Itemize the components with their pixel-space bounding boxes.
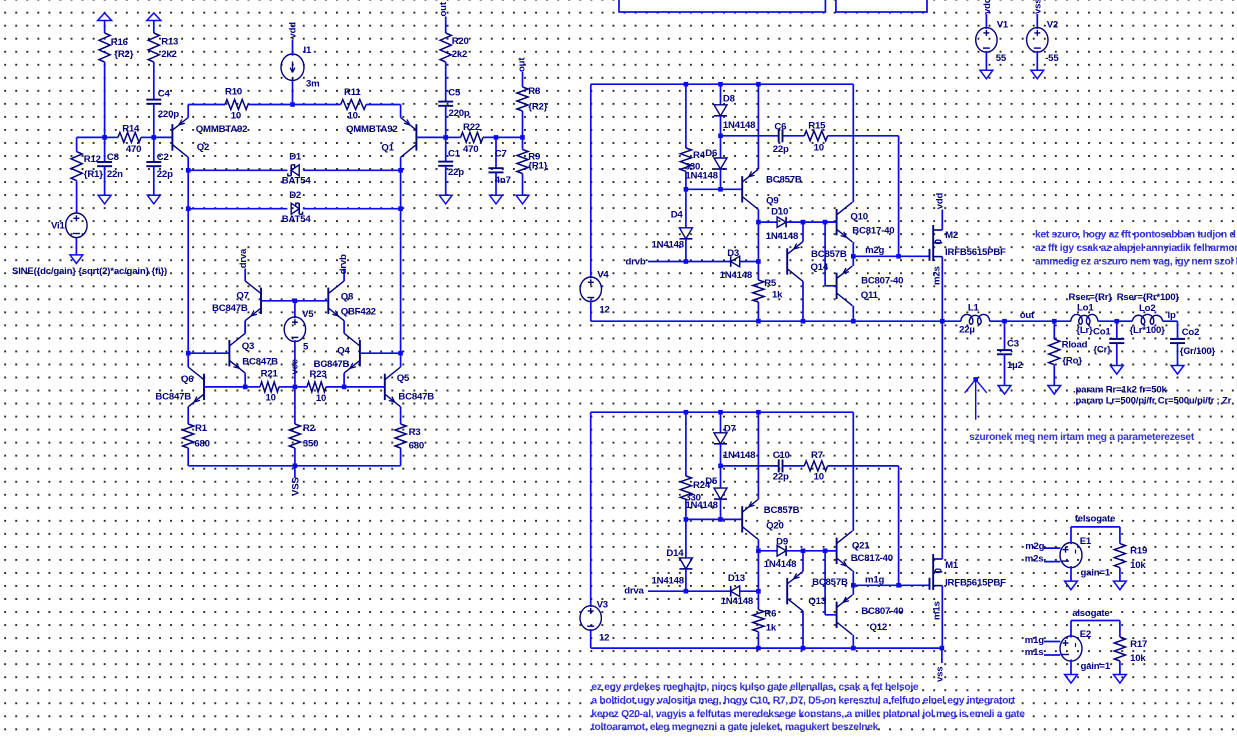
svg-text:R12: R12 bbox=[84, 154, 101, 165]
svg-text:D9: D9 bbox=[776, 536, 788, 547]
svg-text:felsogate: felsogate bbox=[1075, 514, 1115, 525]
svg-text:D13: D13 bbox=[728, 573, 745, 584]
svg-text:BC857B: BC857B bbox=[764, 505, 800, 516]
svg-text:ket szuro, hogy az fft pontosa: ket szuro, hogy az fft pontosabban tudjo… bbox=[1035, 229, 1235, 240]
svg-text:1k: 1k bbox=[772, 289, 783, 300]
svg-text:Q6: Q6 bbox=[181, 374, 193, 385]
svg-text:Q13: Q13 bbox=[808, 596, 826, 607]
svg-text:{R1}: {R1} bbox=[84, 169, 103, 180]
svg-text:vdd: vdd bbox=[287, 22, 298, 39]
svg-text:.param Lr=500/pi/fr Cr=500u/pi: .param Lr=500/pi/fr Cr=500u/pi/fr ; Zr bbox=[1073, 396, 1232, 407]
svg-text:BC857B: BC857B bbox=[766, 175, 802, 186]
svg-text:BC807-40: BC807-40 bbox=[861, 276, 903, 287]
svg-text:D3: D3 bbox=[727, 248, 739, 259]
svg-text:R3: R3 bbox=[409, 427, 421, 438]
svg-text:R14: R14 bbox=[122, 123, 140, 134]
svg-text:10k: 10k bbox=[1130, 560, 1146, 571]
svg-text:1N4148: 1N4148 bbox=[766, 231, 799, 242]
svg-text:L1: L1 bbox=[968, 303, 980, 314]
svg-text:{R2}: {R2} bbox=[114, 49, 133, 60]
svg-text:SINE({dc/gain} {sqrt(2)*ac/gai: SINE({dc/gain} {sqrt(2)*ac/gain} {fi}) bbox=[12, 266, 167, 277]
svg-text:E2: E2 bbox=[1080, 629, 1091, 640]
svg-text:10: 10 bbox=[814, 143, 824, 154]
svg-text:C2: C2 bbox=[157, 152, 169, 163]
svg-text:ez egy erdekes meghajto, nincs: ez egy erdekes meghajto, nincs kulso gat… bbox=[591, 682, 919, 693]
svg-text:C8: C8 bbox=[107, 152, 120, 163]
svg-text:az fft igy csak az alapjel ann: az fft igy csak az alapjel annyiadik fel… bbox=[1035, 243, 1237, 254]
svg-text:22p: 22p bbox=[773, 472, 789, 483]
svg-text:R22: R22 bbox=[463, 122, 480, 133]
svg-text:Q12: Q12 bbox=[870, 622, 888, 633]
svg-text:m2g: m2g bbox=[865, 245, 884, 256]
svg-text:470: 470 bbox=[463, 144, 478, 155]
svg-text:-55: -55 bbox=[1045, 53, 1059, 64]
svg-text:gain=1: gain=1 bbox=[1081, 661, 1111, 672]
svg-text:Q8: Q8 bbox=[341, 291, 354, 302]
svg-text:R11: R11 bbox=[344, 87, 361, 98]
svg-text:Rser={Rr*100}: Rser={Rr*100} bbox=[1117, 292, 1180, 303]
svg-text:I1: I1 bbox=[304, 45, 312, 56]
svg-text:m2s: m2s bbox=[932, 266, 943, 285]
svg-text:out: out bbox=[517, 57, 528, 72]
svg-text:1N4148: 1N4148 bbox=[685, 500, 718, 511]
svg-text:10: 10 bbox=[348, 111, 358, 122]
svg-text:szuronek meg nem irtam meg a p: szuronek meg nem irtam meg a parameterez… bbox=[969, 432, 1195, 443]
svg-text:Q2: Q2 bbox=[197, 142, 209, 153]
svg-text:vss: vss bbox=[935, 667, 946, 682]
svg-text:drvb: drvb bbox=[626, 257, 646, 268]
svg-text:1N4148: 1N4148 bbox=[723, 120, 756, 131]
svg-text:C1: C1 bbox=[448, 148, 461, 159]
svg-text:R1: R1 bbox=[195, 423, 208, 434]
svg-text:1N4148: 1N4148 bbox=[720, 270, 753, 281]
svg-text:IRFB5615PBF: IRFB5615PBF bbox=[945, 578, 1006, 589]
svg-text:BC857B: BC857B bbox=[811, 249, 847, 260]
svg-text:R15: R15 bbox=[808, 121, 826, 132]
svg-text:vdd: vdd bbox=[935, 193, 946, 210]
svg-text:1N4148: 1N4148 bbox=[764, 559, 797, 570]
svg-text:m1s: m1s bbox=[1025, 647, 1044, 658]
svg-text:R13: R13 bbox=[161, 37, 178, 48]
svg-text:1N4148: 1N4148 bbox=[721, 596, 754, 607]
svg-text:C7: C7 bbox=[495, 148, 507, 159]
svg-text:Q5: Q5 bbox=[397, 373, 410, 384]
svg-text:out: out bbox=[438, 1, 449, 16]
svg-text:drvb: drvb bbox=[338, 254, 349, 274]
svg-text:m1s: m1s bbox=[932, 601, 943, 620]
svg-text:V5: V5 bbox=[302, 309, 314, 320]
svg-text:BAT54: BAT54 bbox=[282, 176, 312, 187]
svg-text:BC847B: BC847B bbox=[398, 392, 434, 403]
svg-text:Rload: Rload bbox=[1062, 339, 1088, 350]
svg-text:10: 10 bbox=[231, 111, 241, 122]
svg-text:C4: C4 bbox=[158, 89, 171, 100]
svg-text:220p: 220p bbox=[449, 108, 470, 119]
svg-text:D10: D10 bbox=[771, 207, 788, 218]
svg-text:vee: vee bbox=[290, 359, 301, 374]
svg-text:VSS: VSS bbox=[291, 477, 302, 496]
svg-text:{Ro}: {Ro} bbox=[1062, 356, 1082, 367]
svg-text:R10: R10 bbox=[225, 87, 242, 98]
svg-text:BC847B: BC847B bbox=[212, 303, 248, 314]
svg-text:out: out bbox=[1020, 310, 1035, 321]
svg-text:vdd: vdd bbox=[982, 0, 993, 14]
svg-text:R19: R19 bbox=[1130, 546, 1147, 557]
svg-text:D8: D8 bbox=[723, 93, 736, 104]
svg-text:gain=1: gain=1 bbox=[1081, 568, 1111, 579]
svg-text:10: 10 bbox=[814, 472, 824, 483]
svg-text:1N4148: 1N4148 bbox=[685, 170, 718, 181]
svg-text:3m: 3m bbox=[306, 79, 319, 90]
svg-text:M1: M1 bbox=[945, 560, 959, 571]
svg-text:12: 12 bbox=[599, 633, 609, 644]
svg-text:R8: R8 bbox=[528, 86, 541, 97]
svg-text:Lo2: Lo2 bbox=[1139, 303, 1155, 314]
svg-text:R6: R6 bbox=[764, 609, 776, 620]
svg-text:Q4: Q4 bbox=[337, 346, 350, 357]
svg-text:1k: 1k bbox=[766, 623, 777, 634]
svg-text:R21: R21 bbox=[261, 369, 279, 380]
svg-text:22p: 22p bbox=[773, 144, 789, 155]
svg-text:Q11: Q11 bbox=[861, 290, 879, 301]
svg-text:22µ: 22µ bbox=[959, 325, 975, 336]
svg-text:55: 55 bbox=[996, 53, 1007, 64]
svg-text:drva: drva bbox=[624, 586, 644, 597]
svg-text:V3: V3 bbox=[597, 600, 608, 611]
svg-text:10: 10 bbox=[316, 393, 326, 404]
svg-text:R20: R20 bbox=[452, 36, 469, 47]
svg-text:drva: drva bbox=[238, 248, 249, 268]
svg-text:Q14: Q14 bbox=[811, 262, 829, 273]
svg-text:R16: R16 bbox=[111, 37, 128, 48]
svg-text:D14: D14 bbox=[666, 548, 684, 559]
svg-text:{R1}: {R1} bbox=[528, 160, 547, 171]
svg-text:C6: C6 bbox=[774, 122, 786, 133]
svg-text:Q10: Q10 bbox=[850, 212, 868, 223]
svg-text:680: 680 bbox=[194, 439, 209, 450]
svg-text:BC857B: BC857B bbox=[812, 577, 848, 588]
svg-text:10k: 10k bbox=[1130, 653, 1146, 664]
svg-text:R4: R4 bbox=[693, 150, 706, 161]
svg-text:2k2: 2k2 bbox=[452, 49, 467, 60]
svg-text:m2g: m2g bbox=[1025, 541, 1044, 552]
svg-text:220p: 220p bbox=[158, 109, 179, 120]
svg-text:m2s: m2s bbox=[1025, 554, 1044, 565]
svg-text:D6: D6 bbox=[705, 148, 717, 159]
svg-text:lp: lp bbox=[1168, 310, 1176, 321]
svg-text:1N4148: 1N4148 bbox=[652, 576, 685, 587]
svg-text:Rser={Rr}: Rser={Rr} bbox=[1069, 292, 1113, 303]
svg-text:IRFB5615PBF: IRFB5615PBF bbox=[945, 247, 1006, 258]
svg-text:BC817-40: BC817-40 bbox=[852, 226, 894, 237]
svg-text:V1: V1 bbox=[997, 20, 1009, 31]
svg-text:QMMBTA92: QMMBTA92 bbox=[196, 124, 248, 135]
svg-text:1µ2: 1µ2 bbox=[1007, 360, 1023, 371]
svg-text:QBF422: QBF422 bbox=[341, 307, 376, 318]
svg-text:toltoaramot, eleg megnezni a g: toltoaramot, eleg megnezni a gate jeleke… bbox=[591, 722, 878, 733]
svg-text:R2: R2 bbox=[303, 423, 315, 434]
svg-text:470: 470 bbox=[126, 144, 141, 155]
svg-text:Q1: Q1 bbox=[381, 142, 394, 153]
svg-text:5: 5 bbox=[303, 342, 309, 353]
svg-text:.param Rr=1k2 fr=50k: .param Rr=1k2 fr=50k bbox=[1073, 385, 1167, 396]
svg-text:C3: C3 bbox=[1007, 339, 1019, 350]
svg-text:22n: 22n bbox=[107, 169, 123, 180]
svg-text:E1: E1 bbox=[1080, 536, 1092, 547]
svg-text:1N4148: 1N4148 bbox=[652, 239, 685, 250]
svg-text:{Lr*100}: {Lr*100} bbox=[1130, 325, 1166, 336]
svg-text:Q21: Q21 bbox=[852, 540, 870, 551]
svg-text:R5: R5 bbox=[764, 278, 777, 289]
svg-text:R7: R7 bbox=[811, 450, 823, 461]
svg-text:{Cr/100}: {Cr/100} bbox=[1180, 346, 1216, 357]
svg-text:22p: 22p bbox=[157, 169, 173, 180]
svg-text:kepez Q20-al, vagyis a felfuta: kepez Q20-al, vagyis a felfutas meredeks… bbox=[591, 709, 1025, 720]
svg-text:12: 12 bbox=[599, 304, 609, 315]
svg-text:alsogate: alsogate bbox=[1072, 608, 1109, 619]
svg-text:Lo1: Lo1 bbox=[1077, 303, 1094, 314]
svg-text:QMMBTA92: QMMBTA92 bbox=[346, 124, 398, 135]
svg-text:D2: D2 bbox=[289, 190, 301, 201]
svg-text:vss: vss bbox=[1033, 0, 1044, 14]
svg-text:{R2}: {R2} bbox=[528, 102, 547, 113]
svg-text:m1g: m1g bbox=[865, 574, 884, 585]
svg-text:Co2: Co2 bbox=[1182, 327, 1200, 338]
svg-text:Q20: Q20 bbox=[766, 520, 784, 531]
svg-text:C5: C5 bbox=[448, 88, 461, 99]
svg-text:Vi1: Vi1 bbox=[51, 221, 65, 232]
svg-text:BC847B: BC847B bbox=[155, 392, 191, 403]
svg-text:{Cr}: {Cr} bbox=[1093, 345, 1111, 356]
svg-text:BC847B: BC847B bbox=[242, 356, 278, 367]
svg-text:R23: R23 bbox=[310, 369, 327, 380]
svg-text:BC807-40: BC807-40 bbox=[861, 606, 903, 617]
svg-text:2k2: 2k2 bbox=[161, 49, 176, 60]
svg-text:D7: D7 bbox=[724, 424, 736, 435]
svg-text:4n7: 4n7 bbox=[495, 175, 511, 186]
svg-text:V2: V2 bbox=[1047, 20, 1058, 31]
svg-text:D4: D4 bbox=[671, 210, 684, 221]
svg-text:BAT54: BAT54 bbox=[282, 214, 312, 225]
svg-text:m1g: m1g bbox=[1025, 635, 1044, 646]
svg-text:C10: C10 bbox=[773, 450, 790, 461]
svg-text:D5: D5 bbox=[705, 476, 718, 487]
svg-text:350: 350 bbox=[303, 439, 318, 450]
svg-text:BC817-40: BC817-40 bbox=[851, 553, 893, 564]
svg-text:Q9: Q9 bbox=[766, 196, 778, 207]
svg-text:22p: 22p bbox=[448, 167, 464, 178]
svg-text:D1: D1 bbox=[289, 152, 302, 163]
svg-text:M2: M2 bbox=[945, 230, 958, 241]
svg-text:680: 680 bbox=[409, 441, 424, 452]
svg-text:{Lr}: {Lr} bbox=[1076, 325, 1093, 336]
svg-text:a holtidot ugy valositja meg,: a holtidot ugy valositja meg, hogy C10, … bbox=[591, 696, 1015, 707]
svg-text:Q7: Q7 bbox=[236, 290, 248, 301]
svg-text:1N4148: 1N4148 bbox=[723, 450, 756, 461]
svg-text:Co1: Co1 bbox=[1093, 326, 1111, 337]
svg-text:V4: V4 bbox=[597, 269, 609, 280]
svg-text:ammedig ez a szuro nem vag, ig: ammedig ez a szuro nem vag, igy nem szol… bbox=[1035, 257, 1237, 268]
svg-text:10: 10 bbox=[266, 392, 276, 403]
svg-text:Q3: Q3 bbox=[242, 341, 254, 352]
svg-text:R17: R17 bbox=[1130, 639, 1147, 650]
